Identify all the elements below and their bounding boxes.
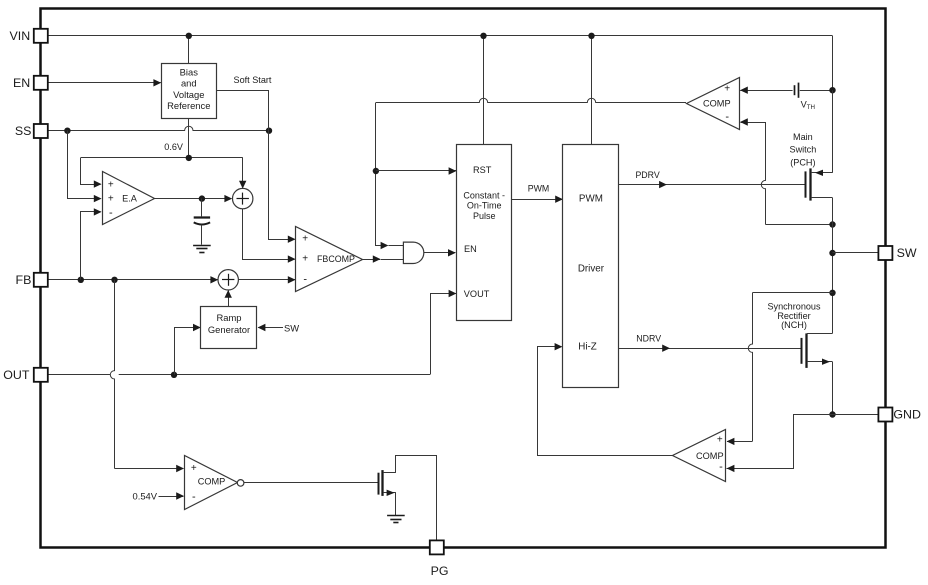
- svg-text:OUT: OUT: [3, 368, 30, 382]
- svg-text:-: -: [725, 111, 729, 123]
- svg-text:NDRV: NDRV: [636, 334, 661, 344]
- svg-text:Bias: Bias: [180, 67, 199, 78]
- svg-text:Voltage: Voltage: [173, 89, 204, 100]
- svg-text:+: +: [191, 463, 197, 474]
- svg-text:-: -: [719, 461, 723, 473]
- svg-text:SS: SS: [15, 124, 32, 138]
- svg-text:Synchronous: Synchronous: [767, 301, 821, 311]
- svg-text:FBCOMP: FBCOMP: [317, 254, 355, 264]
- svg-text:EN: EN: [13, 76, 30, 90]
- svg-text:-: -: [192, 491, 196, 503]
- svg-text:RST: RST: [473, 165, 492, 175]
- svg-text:VOUT: VOUT: [464, 289, 490, 299]
- svg-text:Generator: Generator: [208, 324, 250, 335]
- svg-text:+: +: [302, 234, 308, 245]
- svg-text:Ramp: Ramp: [216, 312, 241, 323]
- svg-text:PWM: PWM: [579, 193, 603, 204]
- svg-text:On-Time: On-Time: [467, 201, 502, 211]
- svg-text:+: +: [108, 180, 114, 191]
- svg-text:Driver: Driver: [578, 263, 605, 274]
- svg-text:PWM: PWM: [528, 184, 550, 194]
- svg-text:+: +: [724, 84, 730, 95]
- svg-text:Main: Main: [793, 132, 813, 142]
- svg-text:PG: PG: [431, 564, 449, 578]
- svg-text:Constant -: Constant -: [463, 190, 505, 200]
- svg-text:+: +: [717, 435, 723, 446]
- svg-text:-: -: [303, 273, 307, 285]
- svg-text:+: +: [302, 254, 308, 265]
- svg-text:VIN: VIN: [10, 29, 31, 43]
- svg-text:COMP: COMP: [703, 98, 731, 108]
- svg-text:Soft Start: Soft Start: [234, 75, 272, 85]
- svg-text:+: +: [108, 193, 114, 204]
- svg-text:PDRV: PDRV: [635, 170, 659, 180]
- svg-text:COMP: COMP: [198, 477, 226, 487]
- svg-text:Pulse: Pulse: [473, 211, 496, 221]
- svg-text:Reference: Reference: [167, 100, 210, 111]
- svg-text:FB: FB: [16, 273, 32, 287]
- svg-text:(NCH): (NCH): [781, 320, 807, 330]
- svg-text:0.54V: 0.54V: [133, 491, 158, 502]
- svg-text:GND: GND: [893, 408, 921, 422]
- svg-text:EN: EN: [464, 244, 477, 254]
- svg-text:SW: SW: [897, 246, 917, 260]
- svg-text:Switch: Switch: [790, 145, 817, 155]
- svg-text:Hi-Z: Hi-Z: [578, 341, 597, 352]
- svg-text:-: -: [109, 207, 113, 219]
- svg-text:E.A: E.A: [122, 194, 138, 204]
- svg-text:(PCH): (PCH): [790, 157, 815, 167]
- svg-text:SW: SW: [284, 322, 299, 333]
- svg-text:0.6V: 0.6V: [164, 142, 184, 152]
- svg-text:COMP: COMP: [696, 451, 724, 461]
- svg-text:and: and: [181, 78, 197, 89]
